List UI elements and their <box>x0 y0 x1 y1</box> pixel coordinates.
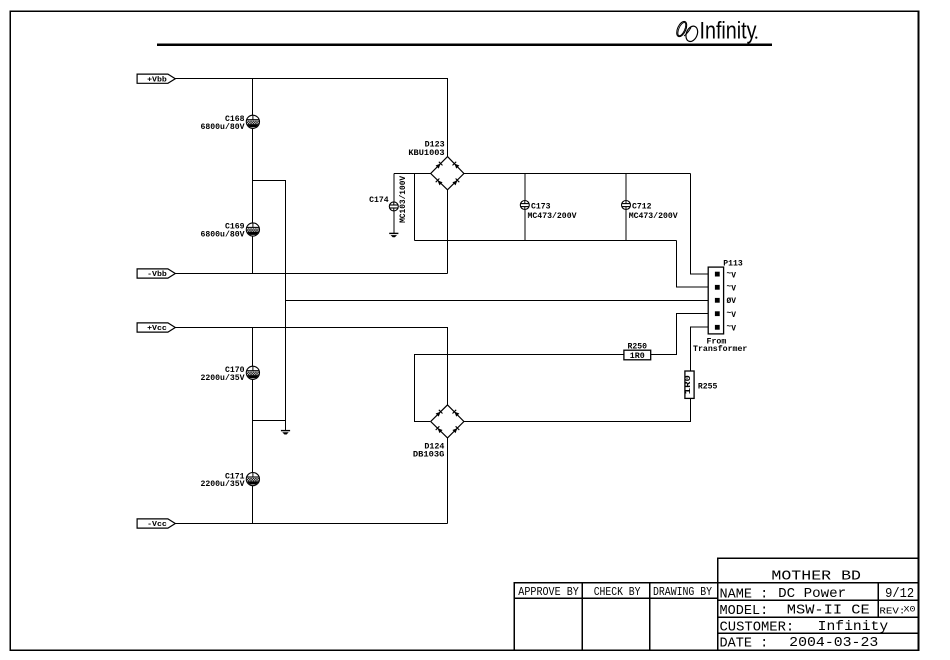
wire -Vcc rail <box>175 523 448 525</box>
svg-text:DB103G: DB103G <box>413 449 445 459</box>
wire AC1 to P113 pin1 <box>691 174 717 275</box>
svg-text:MC473/200V: MC473/200V <box>629 211 679 221</box>
svg-text:CUSTOMER:: CUSTOMER: <box>720 620 795 635</box>
ground below C174 <box>389 233 398 237</box>
resistor R250 <box>624 350 651 360</box>
port +Vcc <box>137 323 175 332</box>
wire C174 to AC node <box>393 174 395 234</box>
approval table outline <box>514 583 717 651</box>
svg-text:9/12: 9/12 <box>885 587 914 602</box>
svg-text:DC Power: DC Power <box>778 587 846 602</box>
svg-text:ØV: ØV <box>727 296 737 306</box>
svg-text:Transformer: Transformer <box>693 344 747 354</box>
capacitor C174 <box>389 202 398 211</box>
title block outline <box>718 558 919 650</box>
port +Vbb <box>137 74 175 83</box>
capacitor C171 <box>246 473 259 486</box>
Infinity logo text <box>700 18 758 45</box>
P113 pin 5 <box>715 325 720 330</box>
svg-text:DATE :: DATE : <box>720 637 769 652</box>
wire C170-C171 column <box>252 328 254 524</box>
svg-text:R255: R255 <box>698 381 718 391</box>
Infinity logo mark <box>675 20 700 43</box>
wire 0V branch from cap midpoint <box>253 181 286 431</box>
wire -Vbb rail <box>175 273 448 275</box>
svg-text:Infinity: Infinity <box>700 18 757 45</box>
P113 pin 4 <box>715 311 720 316</box>
wire +Vcc rail <box>175 328 448 405</box>
svg-text:C173: C173 <box>531 201 551 211</box>
port -Vcc <box>137 519 175 528</box>
P113 pin 2 <box>715 285 720 290</box>
svg-text:+Vbb: +Vbb <box>147 76 167 84</box>
wire AC node left of D123 <box>394 173 431 175</box>
svg-text:DRAWING BY: DRAWING BY <box>653 585 712 599</box>
wire D124 negative output <box>447 438 449 524</box>
wire P113 pin4 to R250 <box>651 314 716 355</box>
svg-text:C712: C712 <box>632 201 652 211</box>
ground at cap midpoint <box>281 431 290 435</box>
bridge rectifier D123 <box>431 157 464 190</box>
svg-text:6800u/80V: 6800u/80V <box>201 122 246 132</box>
svg-text:MC473/200V: MC473/200V <box>528 211 578 221</box>
wire C173 leg <box>524 174 526 241</box>
wire C712 leg <box>625 174 627 241</box>
bridge rectifier D124 <box>431 405 464 438</box>
P113 pin 1 <box>715 272 720 277</box>
svg-text:MSW-II CE: MSW-II CE <box>787 604 870 619</box>
capacitor C168 <box>246 115 259 128</box>
wire R255 to D124 right AC <box>463 398 690 421</box>
svg-text:C174: C174 <box>369 195 389 205</box>
connector P113 <box>708 267 723 334</box>
wire cap midpoint to ground <box>253 420 286 422</box>
wire R250 to D124 left AC <box>415 355 624 422</box>
svg-text:2200u/35V: 2200u/35V <box>201 373 246 383</box>
svg-text:1R0: 1R0 <box>683 375 693 394</box>
capacitor C173 <box>520 201 529 210</box>
svg-text:-Vbb: -Vbb <box>147 271 167 279</box>
svg-text:NAME :: NAME : <box>720 587 769 602</box>
svg-text:KBU1003: KBU1003 <box>408 148 444 158</box>
capacitor C170 <box>246 366 259 379</box>
wire AC2 drop <box>414 174 416 241</box>
wire D123 negative output <box>447 190 449 274</box>
svg-text:MODEL:: MODEL: <box>720 604 769 619</box>
revision REV:X0 <box>879 605 915 617</box>
svg-text:Infinity: Infinity <box>818 620 889 635</box>
capacitor C712 <box>622 201 631 210</box>
svg-text:X0: X0 <box>904 605 916 615</box>
svg-text:MC103/100V: MC103/100V <box>398 175 408 223</box>
svg-text:P113: P113 <box>723 258 743 268</box>
svg-text:1R0: 1R0 <box>630 351 645 361</box>
svg-text:2004-03-23: 2004-03-23 <box>789 636 878 651</box>
wire AC2 to P113 pin2 <box>677 241 717 288</box>
logo underline <box>157 44 772 46</box>
capacitor C169 <box>246 223 259 236</box>
svg-text:REV:: REV: <box>879 606 905 617</box>
wire C168-C169 column <box>252 79 254 274</box>
svg-text:R250: R250 <box>628 341 648 351</box>
wire AC2 bottom run <box>415 240 677 242</box>
wire AC node right of D123 <box>464 173 691 175</box>
svg-text:CHECK BY: CHECK BY <box>594 585 641 599</box>
wire +Vbb rail <box>175 79 448 157</box>
wire 0V line to P113 pin3 <box>286 300 717 302</box>
wire P113 pin5 to R255 <box>691 327 717 371</box>
svg-text:2200u/35V: 2200u/35V <box>201 479 246 489</box>
svg-text:APPROVE BY: APPROVE BY <box>518 585 579 599</box>
svg-text:+Vcc: +Vcc <box>147 325 167 333</box>
svg-text:MOTHER BD: MOTHER BD <box>771 570 861 585</box>
port -Vbb <box>137 269 175 278</box>
svg-text:-Vcc: -Vcc <box>147 521 167 529</box>
resistor R255 <box>685 371 694 398</box>
P113 pin 3 <box>715 298 720 303</box>
svg-text:6800u/80V: 6800u/80V <box>201 230 246 240</box>
